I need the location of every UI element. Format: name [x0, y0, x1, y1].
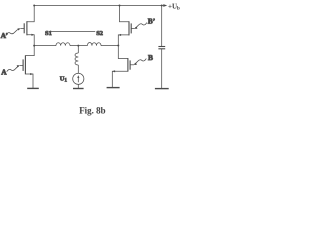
transistor T2 channel bar: [24, 55, 26, 74]
gate B arrow (wavy): [135, 59, 147, 64]
wire center node down: [77, 46, 79, 53]
ground (center): [73, 88, 84, 90]
transistor T4 lower-right: channel bar: [127, 58, 129, 72]
node rail-capacitor junction: [161, 5, 163, 7]
transistor T2 source lead with arrow: [25, 74, 33, 88]
transistor T3 gate lead: [131, 28, 134, 30]
transistor T3 gate bar: [130, 23, 132, 33]
svg-text:U1: U1: [60, 76, 68, 84]
svg-text:A’: A’: [1, 31, 8, 40]
node Y right (S2 / source T3 / drain T4): [117, 45, 119, 47]
transistor T4 gate lead: [130, 64, 134, 66]
inductor (vertical choke): [75, 53, 78, 65]
node X left (source T1 / drain T2 / S1): [33, 45, 35, 47]
wire S1 to center node: [70, 45, 78, 47]
current source arrow: [77, 77, 79, 82]
transistor T4 gate bar: [129, 60, 131, 69]
node center tap: [77, 45, 79, 47]
wire S2 to node Y right: [101, 45, 118, 47]
svg-text:B: B: [148, 53, 153, 62]
transistor T3 upper-right: drain lead: [120, 6, 130, 22]
svg-text:B’: B’: [148, 16, 156, 25]
transistor T3 source lead with arrow: [118, 35, 129, 59]
inductor S1: [56, 43, 70, 46]
transistor T1 upper-left: drain lead: [27, 6, 34, 22]
svg-text:S2: S2: [96, 30, 103, 37]
node rail-left junction: [33, 5, 35, 7]
transistor T2 gate lead: [20, 64, 23, 66]
capacitor C plates: [158, 46, 165, 48]
wire capacitor to ground: [161, 49, 163, 88]
ground (lower right): [107, 87, 120, 89]
gate B' arrow (wavy): [135, 23, 147, 28]
svg-text:Fig. 8b: Fig. 8b: [79, 106, 106, 116]
supply arrowhead +Ub: [163, 4, 167, 7]
wire top supply rail: [34, 5, 163, 7]
transistor T3 channel bar: [128, 21, 130, 35]
input A arrow (wavy): [7, 66, 19, 72]
wire choke to current source: [77, 65, 79, 73]
svg-text:+Ub: +Ub: [168, 2, 180, 11]
transistor T1 channel bar: [26, 21, 28, 35]
transistor T2 gate bar: [22, 59, 24, 71]
input A' arrow (wavy): [6, 29, 19, 35]
transistor T1 gate lead: [21, 28, 25, 30]
transistor T2 lower-left: drain lead: [25, 46, 34, 56]
transistor T1 gate bar: [23, 23, 25, 33]
svg-text:A: A: [1, 67, 7, 76]
current source U1 circle: [73, 73, 84, 84]
svg-text:S1: S1: [45, 30, 52, 37]
coupling line S1-S2: [51, 30, 95, 32]
wire center node to S2: [78, 45, 87, 47]
wire node X to S1: [34, 45, 56, 47]
wire capacitor branch from rail: [161, 6, 163, 47]
ground (left): [27, 87, 39, 89]
transistor T1 source lead with arrow: [27, 35, 34, 46]
transistor T4 source lead with arrow: [112, 71, 128, 87]
ground (far right): [155, 88, 169, 90]
node rail-T3 junction: [119, 5, 121, 7]
wire current source to ground: [77, 84, 79, 88]
inductor S2: [87, 42, 101, 45]
